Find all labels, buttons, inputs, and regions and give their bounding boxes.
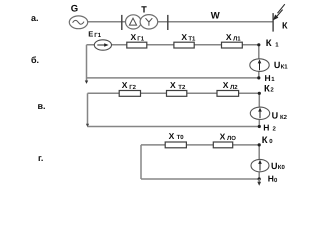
svg-text:2: 2 [270, 86, 274, 93]
reactance X_T1 [174, 42, 194, 48]
wire: row v bottom rail [88, 126, 260, 128]
reactance X_G1 [127, 42, 147, 48]
svg-text:Г1: Г1 [137, 36, 144, 43]
wire: row g bottom rail [141, 178, 259, 180]
svg-text:0: 0 [269, 138, 273, 145]
svg-text:1: 1 [271, 76, 275, 83]
wire: row v left vertical with arrow [87, 93, 89, 124]
generator G circle [69, 16, 87, 29]
svg-text:Л1: Л1 [233, 36, 241, 43]
svg-text:К0: К0 [278, 164, 286, 171]
voltage source U_K1 [250, 59, 269, 72]
transformer T wye symbol [146, 18, 153, 26]
wire: row b right vertical [258, 45, 260, 78]
svg-text:Х: Х [220, 131, 226, 141]
node H0 junction with down arrow [258, 177, 261, 180]
wire: row v right vertical [258, 93, 260, 126]
svg-text:а.: а. [31, 13, 39, 23]
transformer T left terminal bar [121, 15, 123, 30]
wire: row b left vertical with arrow [86, 45, 88, 82]
svg-text:2: 2 [273, 125, 277, 132]
node H2 junction [258, 125, 261, 128]
reactance X_L1 [222, 42, 243, 48]
svg-text:б.: б. [31, 55, 39, 65]
EMF source E_G1 [94, 40, 111, 50]
transformer T delta winding circle [126, 15, 142, 29]
transformer T wye winding circle [140, 15, 158, 29]
svg-text:Х: Х [122, 80, 128, 90]
wire: row a main line [87, 21, 273, 23]
svg-text:Х: Х [169, 131, 175, 141]
fault lightning arrow K [276, 4, 285, 17]
svg-text:Н: Н [263, 122, 269, 132]
svg-text:U: U [272, 110, 279, 120]
reactance X_G2 [119, 91, 140, 97]
node K1 junction [257, 43, 260, 46]
transformer T right terminal bar [167, 15, 169, 30]
voltage source U_K2 [250, 107, 269, 119]
svg-text:Н: Н [265, 73, 271, 83]
svg-text:Г2: Г2 [129, 84, 136, 91]
svg-text:в.: в. [38, 101, 46, 111]
svg-text:1: 1 [275, 41, 279, 48]
wire: row g left vertical [140, 145, 142, 179]
transformer T delta symbol [129, 18, 136, 25]
svg-text:К: К [282, 20, 288, 30]
wire: row b bottom rail [87, 77, 259, 79]
svg-text:Х: Х [170, 80, 176, 90]
svg-text:Х: Х [181, 32, 187, 42]
reactance X_T2 [167, 91, 187, 97]
svg-text:Х: Х [226, 32, 232, 42]
svg-text:ЛО: ЛО [227, 135, 236, 142]
svg-text:0: 0 [274, 177, 278, 184]
voltage source U_K0 [251, 159, 269, 171]
fault point terminal bar [272, 13, 274, 32]
svg-text:Е: Е [88, 29, 93, 38]
wire: row g right vertical [258, 145, 260, 179]
wire: row b top rail [87, 44, 259, 46]
reactance X_L0 [213, 142, 232, 148]
svg-text:U: U [271, 161, 278, 171]
svg-text:г.: г. [38, 153, 43, 163]
svg-text:К: К [266, 38, 272, 49]
svg-text:W: W [211, 10, 220, 21]
svg-text:Т: Т [141, 4, 147, 14]
node K2 junction [258, 92, 261, 95]
svg-text:G: G [71, 4, 78, 15]
svg-text:К1: К1 [281, 63, 289, 70]
node K0 junction [258, 143, 261, 146]
svg-text:К2: К2 [280, 114, 288, 121]
svg-text:Л2: Л2 [230, 84, 238, 91]
svg-text:Т1: Т1 [188, 36, 196, 43]
wire: row v top rail [88, 92, 260, 94]
svg-text:К: К [262, 135, 268, 146]
wire: row g top rail [141, 144, 259, 146]
svg-text:Т2: Т2 [178, 84, 186, 91]
reactance X_T0 [165, 142, 186, 148]
svg-text:U: U [274, 60, 281, 70]
node H1 junction [257, 76, 260, 79]
reactance X_L2 [217, 91, 239, 97]
svg-text:К: К [264, 84, 270, 95]
svg-text:Г1: Г1 [94, 32, 101, 39]
svg-text:Х: Х [131, 32, 137, 42]
generator G sine wave [73, 20, 84, 24]
svg-text:Т0: Т0 [177, 134, 185, 141]
svg-text:Х: Х [223, 80, 229, 90]
